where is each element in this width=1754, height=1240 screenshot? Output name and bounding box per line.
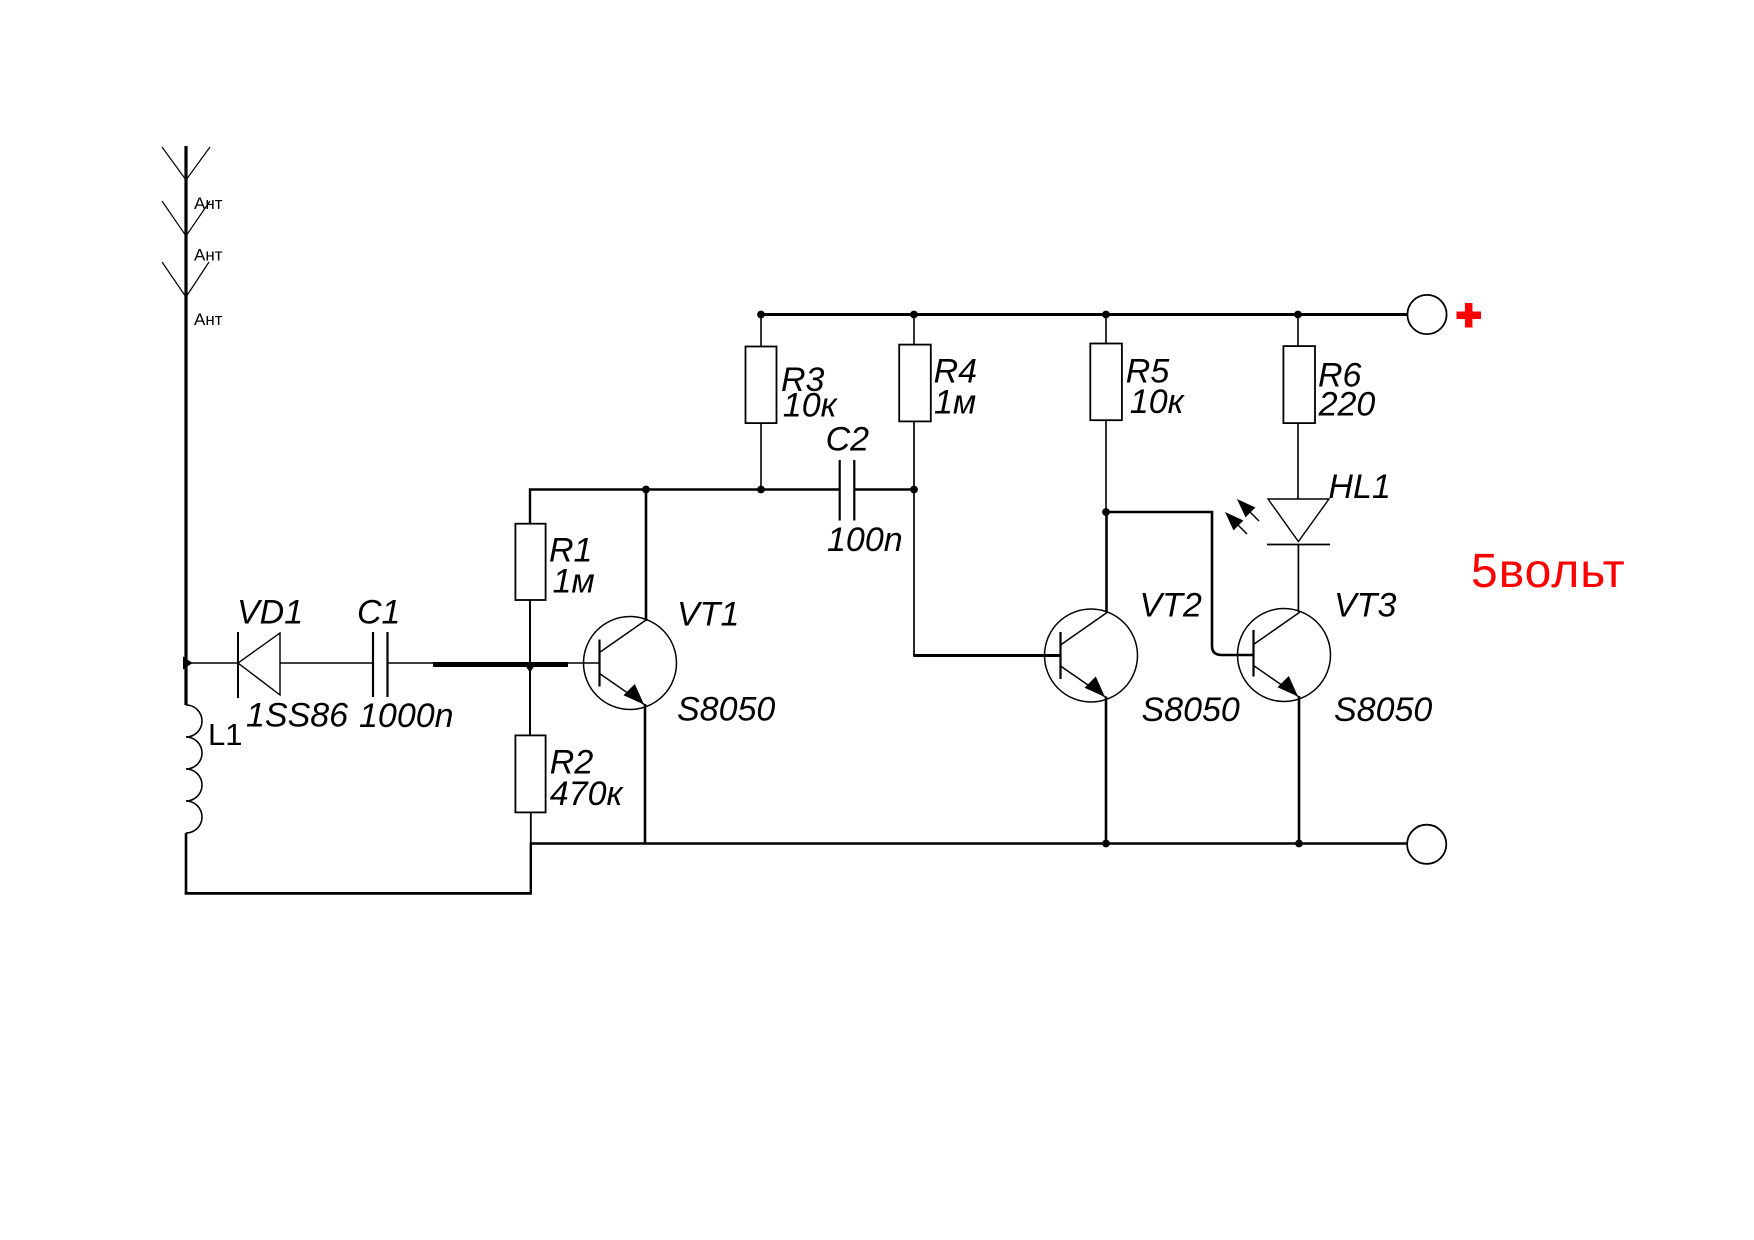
wire C2 right to R4 column	[854, 488, 914, 490]
svg-text:1000n: 1000n	[359, 697, 454, 735]
wire bottom left horizontal	[185, 892, 531, 895]
node rail R5	[1102, 311, 1110, 319]
svg-text:10к: 10к	[783, 386, 839, 424]
node rail R4	[910, 311, 918, 319]
svg-text:100n: 100n	[827, 521, 903, 559]
svg-text:VT1: VT1	[677, 596, 739, 634]
wire VT3 emitter	[1298, 696, 1301, 844]
node R5 bottom junction	[1102, 508, 1110, 516]
wire VT2 emitter	[1105, 697, 1108, 844]
capacitor C2	[840, 460, 855, 521]
wire VT1 emitter	[644, 704, 647, 844]
svg-text:470к: 470к	[550, 775, 625, 813]
wire VD1 to C1	[280, 662, 373, 664]
LED HL1	[1267, 499, 1330, 612]
wire C1 to VT1 base (thin)	[388, 662, 435, 664]
svg-text:S8050: S8050	[1334, 691, 1432, 729]
node VT2 emitter junction	[1102, 840, 1110, 848]
resistor R3	[746, 315, 777, 490]
resistor R2	[515, 735, 545, 843]
plus sign	[1457, 303, 1482, 328]
node rail R6	[1294, 311, 1302, 319]
svg-text:Ант: Ант	[194, 310, 223, 329]
wire thick segment	[433, 662, 568, 667]
svg-text:1м: 1м	[553, 563, 595, 601]
wire L1 bottom to ground run	[185, 833, 188, 894]
node R4 column junction	[910, 486, 918, 494]
svg-text:5вольт: 5вольт	[1471, 545, 1626, 598]
resistor R5	[1090, 315, 1122, 513]
LED arrow 2	[1225, 512, 1247, 534]
svg-text:L1: L1	[208, 717, 242, 752]
svg-text:1м: 1м	[934, 384, 976, 422]
wire R4 column to VT2 base	[913, 654, 1060, 657]
capacitor C1	[373, 632, 388, 697]
antenna mast	[162, 146, 210, 705]
node base junction	[524, 663, 537, 673]
svg-text:10к: 10к	[1130, 383, 1186, 421]
wire bottom step vertical	[530, 843, 532, 895]
resistor R1	[515, 524, 545, 736]
svg-text:VD1: VD1	[237, 594, 303, 632]
terminal plus	[1407, 295, 1446, 334]
wire R1 top to rail	[530, 490, 840, 524]
LED arrow 1	[1237, 499, 1259, 521]
transistor VT2 S8050	[1045, 609, 1138, 702]
svg-text:220: 220	[1318, 386, 1376, 424]
svg-text:Ант: Ант	[194, 246, 223, 265]
svg-text:1SS86: 1SS86	[246, 697, 348, 735]
diode VD1 1SS86	[238, 632, 280, 698]
svg-text:S8050: S8050	[1142, 691, 1240, 729]
power rail top	[761, 313, 1407, 316]
wire VT1 collector	[645, 490, 648, 622]
wire antenna to VD1	[186, 662, 238, 664]
wire step to VT3 base	[1106, 512, 1254, 655]
svg-text:C2: C2	[826, 421, 870, 459]
resistor R4	[899, 315, 931, 656]
transistor VT3 S8050	[1238, 609, 1331, 702]
node VT1 collector junction	[642, 486, 650, 494]
wire into base	[568, 662, 600, 664]
svg-text:C1: C1	[357, 594, 400, 632]
inductor L1	[186, 705, 202, 833]
transistor VT1 S8050	[584, 617, 677, 710]
node VT3 emitter junction	[1295, 840, 1303, 848]
svg-text:S8050: S8050	[677, 691, 775, 729]
node R3 bottom junction	[757, 486, 765, 494]
svg-text:HL1: HL1	[1328, 468, 1390, 506]
node rail R3	[757, 311, 765, 319]
node antenna junction	[183, 657, 193, 670]
bottom rail	[531, 842, 1407, 845]
svg-text:VT2: VT2	[1140, 587, 1202, 625]
terminal minus	[1407, 825, 1446, 864]
svg-text:VT3: VT3	[1334, 587, 1396, 625]
svg-text:Ант: Ант	[194, 194, 223, 213]
resistor R6	[1283, 315, 1315, 500]
wire VT2 collector	[1105, 512, 1108, 612]
